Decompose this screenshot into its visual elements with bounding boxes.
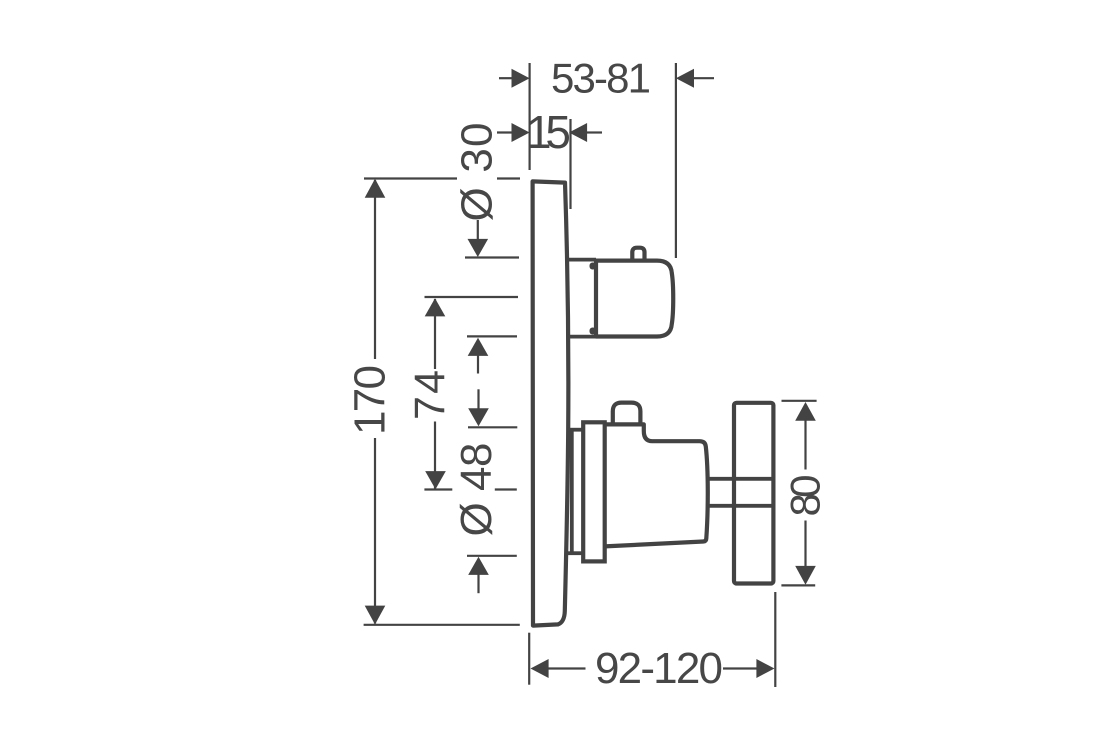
arrowhead 15 right — [569, 123, 587, 142]
tick bottom of cross bar y585 — [781, 584, 815, 586]
tick top of thermostat handle y257 — [465, 256, 519, 258]
svg-text:15: 15 — [526, 106, 571, 158]
tick volume axis y489 left part — [424, 488, 452, 490]
svg-text:74: 74 — [406, 370, 454, 420]
extension line x529 bottom (92-120 left) — [528, 633, 530, 685]
volume handle rear step top line — [567, 428, 583, 432]
arrowhead 53-81 right — [676, 69, 694, 88]
volume handle body — [605, 424, 708, 546]
dim 80 line upper — [804, 420, 806, 470]
thermostat handle clip bottom — [590, 328, 597, 335]
extension line x775 (92-120 right) — [774, 592, 776, 687]
tick top of plate y178 left part — [364, 177, 457, 179]
arrowhead 74 down — [425, 471, 446, 489]
handle stem bottom line — [707, 504, 774, 508]
escutcheon plate (side view) — [533, 181, 569, 625]
extension line x530 (wall face) — [528, 63, 530, 170]
dim 53-81 left tail — [499, 77, 513, 79]
arrowhead 92-120 right — [756, 659, 774, 678]
dim 15 left tail — [497, 131, 514, 133]
dim 74 line lower — [434, 422, 436, 489]
arrowhead 92-120 left — [531, 659, 549, 678]
arrowhead dia48 down — [468, 408, 489, 426]
dim dia30 upper arrow tail — [477, 220, 479, 241]
dim dia48 lower arrow tail — [477, 574, 479, 593]
volume handle dome knob — [613, 403, 641, 424]
tick top of plate y178 right part — [497, 177, 520, 179]
arrowhead 15 left — [512, 123, 530, 142]
extension line x676 (handle front) — [675, 63, 677, 258]
tick bottom of volume handle y555 — [467, 555, 517, 557]
dim 15 right tail — [587, 131, 602, 133]
dim 74 line upper — [434, 299, 436, 369]
tick thermostat axis y297 — [425, 296, 519, 298]
arrowhead dia48 up — [468, 557, 489, 575]
svg-text:170: 170 — [346, 365, 395, 435]
arrowhead 170 bottom — [365, 606, 386, 625]
svg-text:92-120: 92-120 — [595, 644, 723, 693]
dim 92-120 line right — [723, 667, 757, 669]
dim 170 line lower — [374, 438, 376, 624]
svg-text:80: 80 — [782, 475, 829, 517]
thermostat handle body — [596, 261, 673, 337]
volume handle sleeve — [583, 422, 605, 561]
handle stem top line — [707, 477, 774, 481]
volume handle rear step bottom line — [567, 551, 583, 555]
arrowhead 170 top — [365, 179, 386, 198]
thermostat handle flange top line — [566, 258, 596, 262]
dim 170 line upper — [374, 180, 376, 359]
thermostat handle flange bottom line — [567, 335, 596, 339]
extension line x569 (plate front) — [569, 119, 571, 209]
arrowhead 80 up — [795, 402, 816, 421]
tick top of volume handle y427 — [468, 426, 517, 428]
thermostat handle clip top — [590, 263, 597, 270]
dim 92-120 line left — [548, 667, 586, 669]
dim 80 line lower — [804, 521, 806, 567]
volume handle collar edge — [570, 430, 574, 554]
tick volume axis y489 right part — [495, 488, 517, 490]
arrowhead dia30 up — [468, 338, 489, 356]
svg-text:53-81: 53-81 — [551, 55, 651, 102]
arrowhead 53-81 left — [512, 69, 530, 88]
svg-text:Ø 30: Ø 30 — [453, 123, 502, 222]
cross handle bar — [734, 403, 773, 584]
tick top of cross bar y401 — [782, 400, 817, 402]
dim 53-81 right tail — [694, 77, 714, 79]
arrowhead 80 down — [795, 566, 816, 585]
dim dia48 upper arrow tail — [477, 389, 479, 409]
thermostat handle top nub — [632, 248, 644, 259]
arrowhead 74 up — [425, 298, 446, 316]
dim dia30 lower arrow tail — [477, 355, 479, 374]
tick bottom of thermostat handle y336 — [467, 335, 517, 337]
arrowhead dia30 down — [468, 239, 489, 257]
tick bottom of plate y625 — [364, 624, 520, 626]
svg-text:Ø 48: Ø 48 — [452, 443, 501, 537]
